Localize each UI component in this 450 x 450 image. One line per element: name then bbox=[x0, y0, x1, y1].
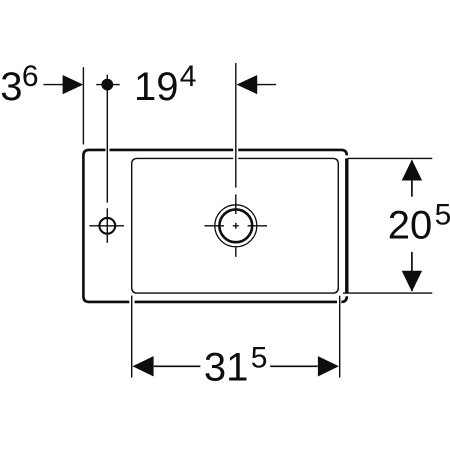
tap hole crosshair horizontal bbox=[89, 225, 124, 227]
drain crosshair vertical segments bbox=[235, 194, 237, 257]
tap hole centerline bbox=[106, 75, 108, 203]
31.5 dim line right tail bbox=[270, 365, 318, 367]
19.4 dim arrow (points left at drain centerline) bbox=[237, 75, 258, 94]
svg-text:4: 4 bbox=[180, 60, 197, 93]
svg-text:6: 6 bbox=[22, 60, 39, 93]
drain inner thick circle bbox=[219, 209, 252, 242]
3.6 dim arrow (points right at left-edge extension line) bbox=[63, 75, 84, 94]
20.5 dim top extension line bbox=[348, 157, 433, 159]
svg-text:19: 19 bbox=[134, 65, 179, 109]
20.5 dim bottom extension line bbox=[343, 292, 432, 294]
19.4 dim dot terminator bbox=[101, 79, 113, 91]
drain outer thin circle bbox=[215, 205, 257, 247]
3.6 dim line bbox=[44, 84, 64, 86]
31.5 dim line left tail bbox=[154, 365, 201, 367]
left edge extension line (for 3.6 dim) bbox=[82, 67, 84, 144]
basin inner bowl rim (rounded rectangle, breaks at drain centerline) bbox=[132, 158, 339, 293]
svg-text:3: 3 bbox=[0, 65, 22, 109]
19.4 dim dot stub line bbox=[96, 84, 120, 86]
20.5 dim down arrow bbox=[402, 271, 422, 292]
drain crosshair horizontal segments bbox=[204, 225, 267, 227]
svg-text:31: 31 bbox=[204, 346, 249, 390]
svg-text:5: 5 bbox=[435, 199, 450, 232]
31.5 dim right arrow bbox=[318, 356, 339, 376]
drain centerline bbox=[235, 63, 237, 188]
31.5 dim left arrow bbox=[133, 356, 154, 376]
20.5 dim line lower segment bbox=[411, 252, 413, 291]
31.5 dim right extension line bbox=[339, 296, 341, 378]
20.5 dim line upper segment bbox=[411, 161, 413, 197]
basin outer outline (left edge, top edge, bottom edge with breaks) bbox=[83, 150, 346, 302]
svg-text:20: 20 bbox=[388, 204, 433, 248]
20.5 dim up arrow bbox=[402, 160, 422, 181]
19.4 dim arrow tail bbox=[257, 84, 277, 86]
basin outer right edge (thick segment between extension lines) bbox=[345, 158, 348, 293]
svg-text:5: 5 bbox=[251, 342, 268, 375]
tap hole circle bbox=[99, 218, 115, 234]
tap hole crosshair vertical bbox=[106, 208, 108, 243]
31.5 dim left extension line bbox=[131, 296, 133, 378]
